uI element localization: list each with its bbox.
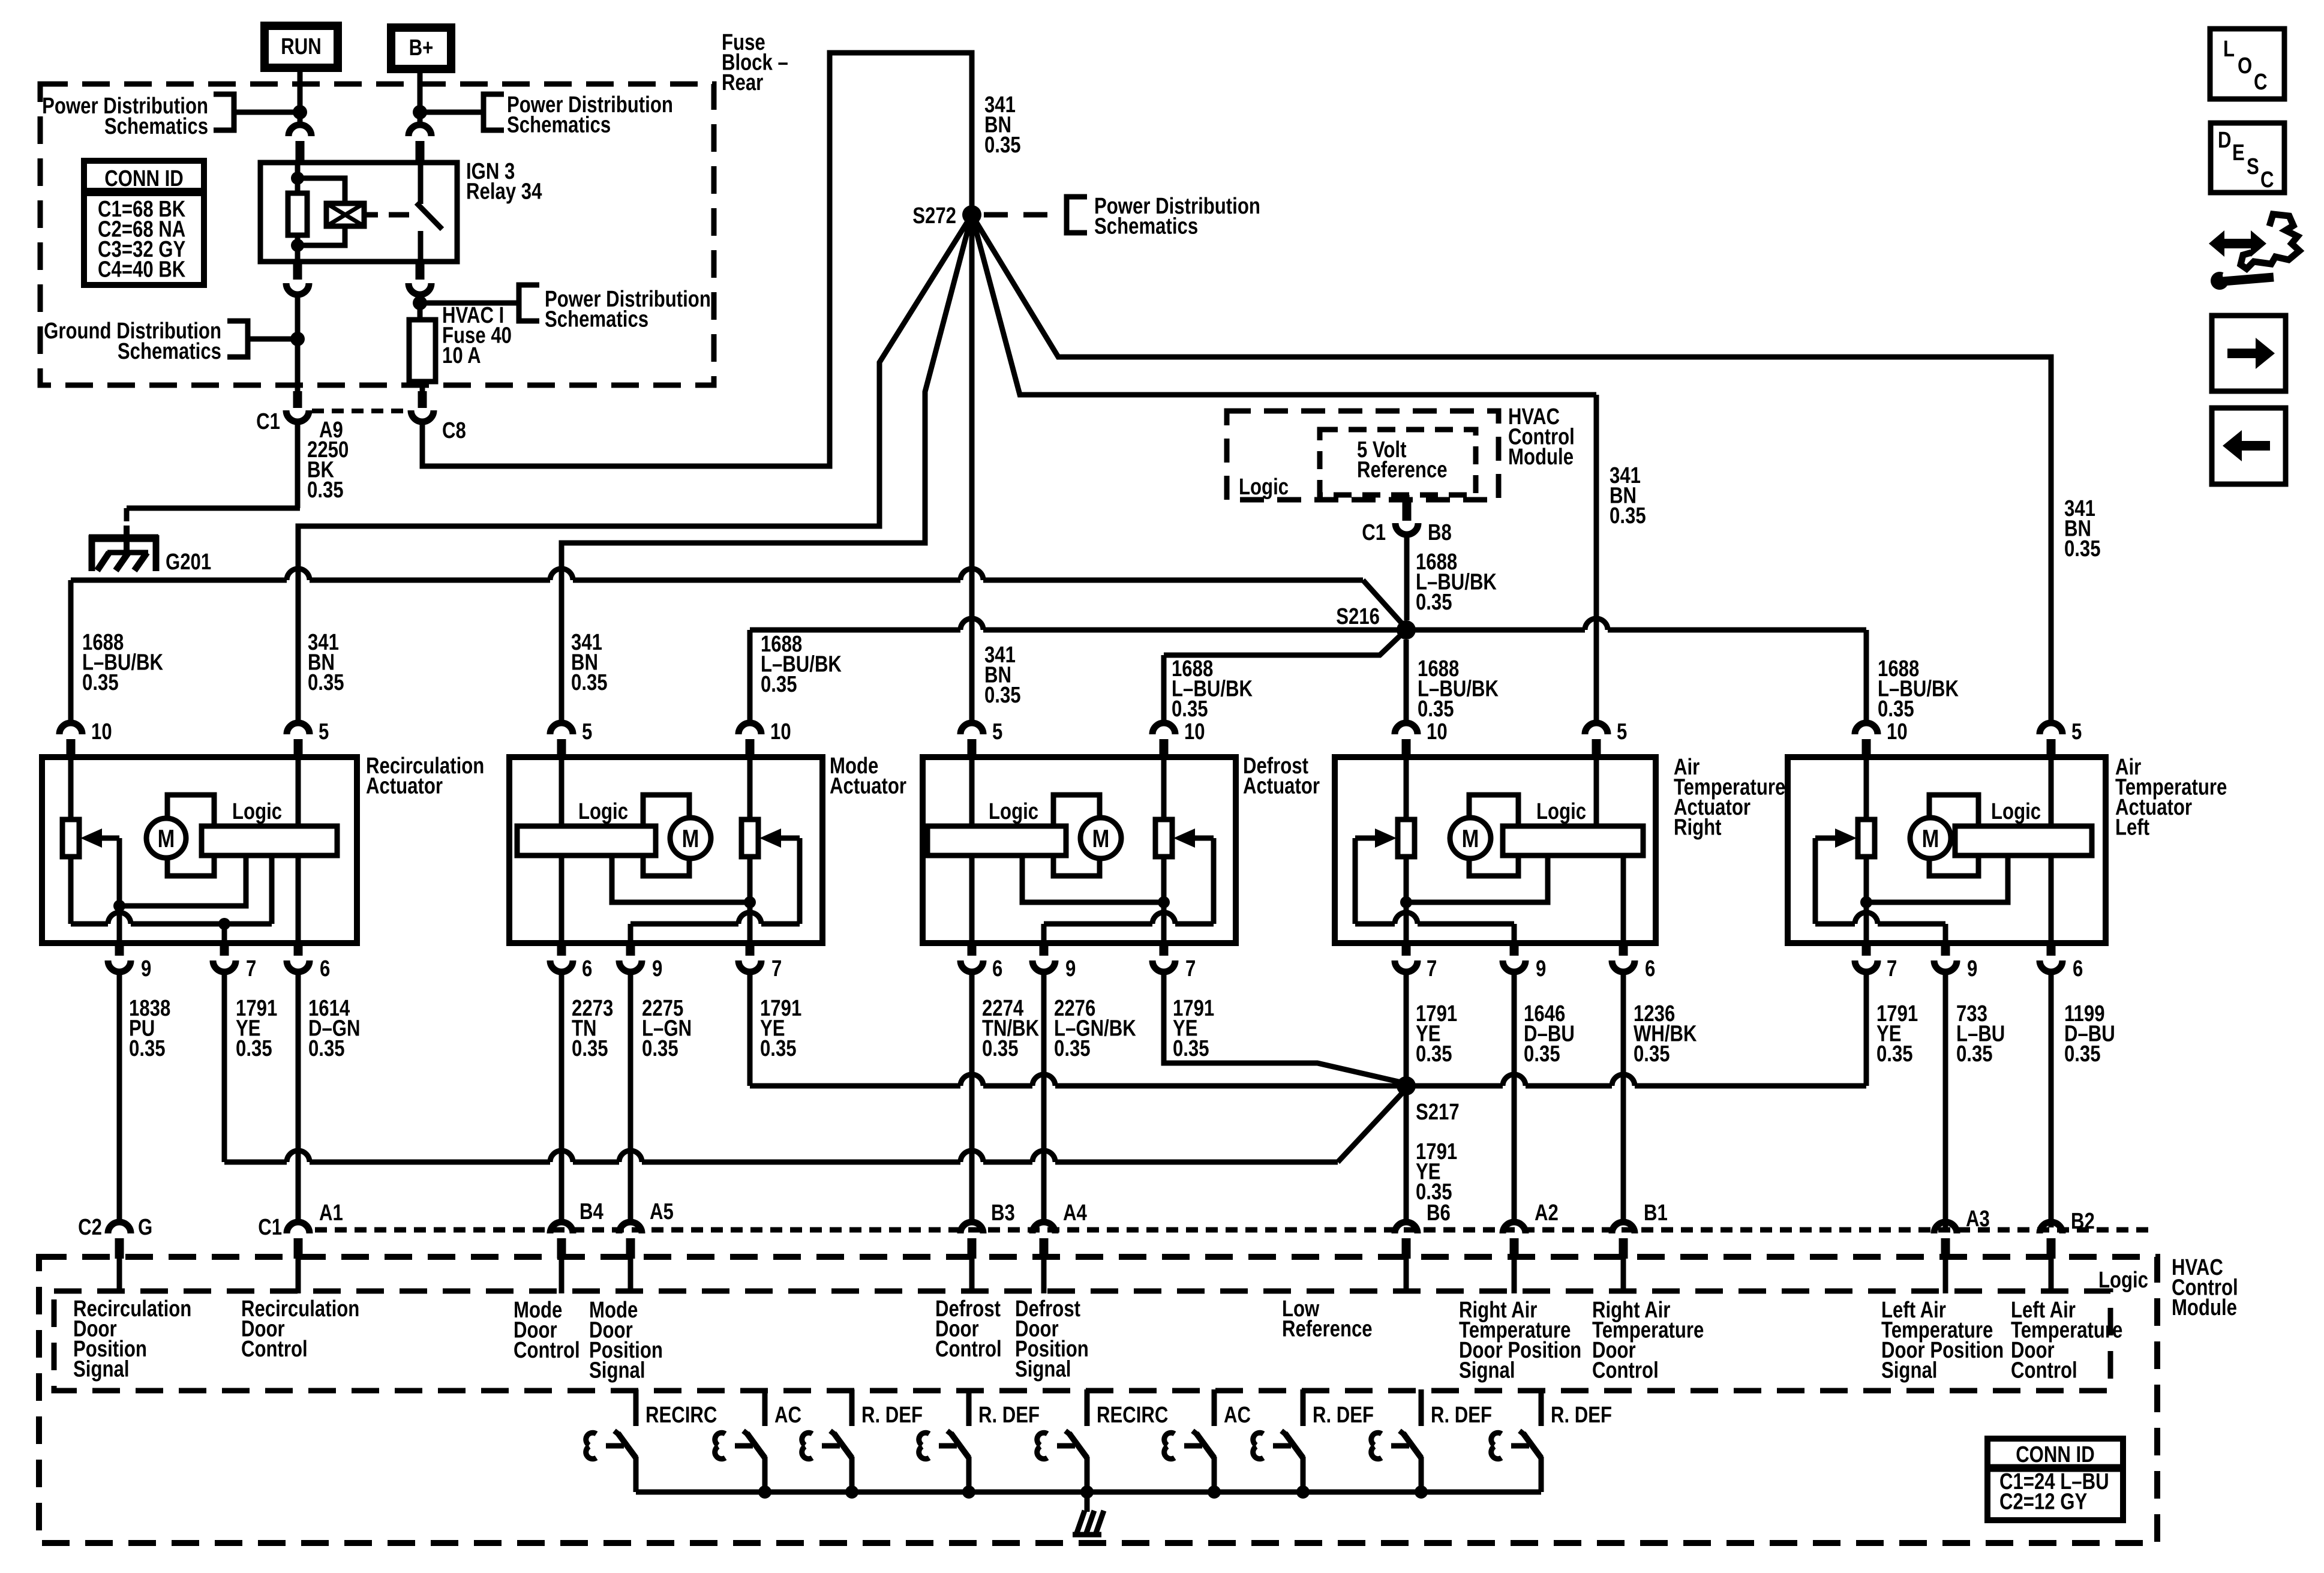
wire pot bottom to pin 7 line xyxy=(68,857,74,924)
HVAC control module right edge wire 341 BN to ATR pin 5 xyxy=(1594,395,1599,721)
motor M xyxy=(146,818,186,858)
svg-text:S217: S217 xyxy=(1416,1100,1460,1125)
wiper arrow xyxy=(1173,828,1195,848)
pin 9 connector xyxy=(1503,960,1526,972)
svg-text:S216: S216 xyxy=(1336,604,1380,629)
wire pot bottom to pin7 xyxy=(747,857,753,943)
pin 6 connector xyxy=(960,960,983,972)
svg-text:Signal: Signal xyxy=(589,1358,645,1383)
svg-text:5: 5 xyxy=(582,719,592,745)
wire pin5 to logic xyxy=(2049,760,2054,826)
connector row pin G xyxy=(108,1222,131,1233)
motor M xyxy=(1080,818,1121,858)
wire pin10 to potentiometer xyxy=(1864,760,1869,819)
wire 1688 bus S216 to recirculation pin 10 xyxy=(71,578,287,583)
svg-text:S272: S272 xyxy=(912,203,956,229)
wire logic to pin 6 xyxy=(296,855,301,943)
switch RECIRC at x=1812 xyxy=(1085,1389,1090,1426)
svg-text:Logic: Logic xyxy=(578,799,628,824)
relay solenoid branch wires xyxy=(298,178,345,203)
pin 5 connector xyxy=(287,723,310,734)
motor M xyxy=(1910,818,1951,858)
switch bus junction xyxy=(1296,1485,1310,1499)
svg-text:Signal: Signal xyxy=(1459,1358,1515,1383)
svg-text:10: 10 xyxy=(1184,719,1205,745)
connector RUN into fuse block xyxy=(289,125,311,136)
relay coil branch junction top xyxy=(291,172,304,185)
fuse block rear dashed box xyxy=(40,84,714,385)
wire ATR pin6 to B1 xyxy=(1621,975,1626,1219)
wire 341 BN S272 to HVAC control module corner xyxy=(972,215,1596,395)
svg-text:M: M xyxy=(1462,825,1479,853)
svg-text:Control: Control xyxy=(935,1337,1002,1362)
logic box xyxy=(1503,826,1643,855)
svg-text:5: 5 xyxy=(319,719,329,745)
wire logic to pin6 xyxy=(559,855,565,943)
CONN ID table bottom right xyxy=(1987,1439,2123,1520)
pin 5 connector xyxy=(2040,723,2062,734)
wire bracket to relay output wire xyxy=(248,337,294,342)
svg-text:Logic: Logic xyxy=(1239,475,1289,500)
svg-text:B6: B6 xyxy=(1427,1200,1451,1226)
svg-text:C2: C2 xyxy=(78,1215,102,1240)
wire mode pin6 to B4 xyxy=(559,975,565,1219)
svg-text:RUN: RUN xyxy=(281,34,321,59)
junction wiper-logic xyxy=(113,900,125,912)
connector B+ into fuse block xyxy=(409,125,431,136)
wire 341 BN S272 to mode pin 5 xyxy=(562,215,972,721)
svg-text:R. DEF: R. DEF xyxy=(861,1403,923,1428)
svg-text:6: 6 xyxy=(992,956,1002,981)
wire pot tap to logic xyxy=(1406,855,1548,902)
wiper arrow xyxy=(1835,828,1857,848)
svg-text:B3: B3 xyxy=(991,1200,1015,1226)
svg-text:B1: B1 xyxy=(1644,1200,1668,1226)
svg-text:D: D xyxy=(2218,128,2232,153)
svg-text:7: 7 xyxy=(771,956,782,981)
svg-text:B+: B+ xyxy=(409,35,434,61)
switch R. DEF at x=2369 xyxy=(1419,1389,1424,1426)
connector face dashed line xyxy=(315,1227,2154,1233)
pin 7 connector xyxy=(1395,960,1418,972)
fuse HVAC I Fuse 40 10A symbol xyxy=(409,320,436,382)
svg-text:Reference: Reference xyxy=(1282,1317,1373,1342)
potentiometer xyxy=(741,819,758,857)
svg-text:Signal: Signal xyxy=(1015,1357,1071,1382)
switch RECIRC at x=1060 xyxy=(633,1389,639,1426)
pin 10 connector xyxy=(59,723,82,734)
svg-text:Reference: Reference xyxy=(1357,458,1448,483)
junction pot-logic tap xyxy=(1158,896,1170,908)
svg-text:Schematics: Schematics xyxy=(118,339,221,364)
wiper wire to pin 9 xyxy=(1353,838,1358,924)
svg-text:Schematics: Schematics xyxy=(545,307,648,332)
switch R. DEF at x=1615 xyxy=(966,1389,972,1426)
svg-text:M: M xyxy=(1092,825,1110,853)
svg-text:R. DEF: R. DEF xyxy=(1551,1403,1612,1428)
svg-text:G: G xyxy=(138,1215,152,1240)
svg-text:R. DEF: R. DEF xyxy=(1431,1403,1492,1428)
svg-text:AC: AC xyxy=(774,1403,801,1428)
connector row pin A5 xyxy=(619,1222,642,1233)
wire 1688 branch S216 to defrost pin 10 xyxy=(1164,630,1406,655)
svg-text:Schematics: Schematics xyxy=(507,113,611,138)
wire 5 volt reference output xyxy=(1404,495,1410,500)
svg-text:Logic: Logic xyxy=(1991,799,2041,824)
svg-text:G201: G201 xyxy=(166,550,211,575)
pin 9 connector xyxy=(619,960,642,972)
svg-text:Schematics: Schematics xyxy=(1094,214,1198,239)
HVAC control module logic dashed box xyxy=(1227,411,1499,500)
junction RUN / power distribution tap xyxy=(293,105,307,119)
svg-text:5: 5 xyxy=(1617,719,1627,745)
motor loop xyxy=(1469,795,1518,876)
pin 6 connector xyxy=(2040,960,2062,972)
switch bus ground stub xyxy=(1085,1492,1090,1512)
svg-text:6: 6 xyxy=(1645,956,1655,981)
svg-text:0.35: 0.35 xyxy=(236,1036,272,1061)
switch common bus xyxy=(636,1490,1541,1495)
ground symbol below switch bus xyxy=(1076,1511,1085,1535)
splice S272 xyxy=(962,205,981,224)
wiper wire to pin 9 xyxy=(117,838,122,943)
wire pot bottom to pin7 xyxy=(1864,857,1869,943)
connector row pin B1 xyxy=(1612,1222,1635,1233)
svg-text:10: 10 xyxy=(91,719,112,745)
svg-text:E: E xyxy=(2232,140,2245,166)
pin 9 connector xyxy=(108,960,131,972)
connector row pin A2 xyxy=(1503,1222,1526,1233)
relay output stub B+ side xyxy=(416,262,425,280)
motor loop xyxy=(1053,795,1100,876)
svg-text:0.35: 0.35 xyxy=(1878,697,1914,722)
svg-text:10: 10 xyxy=(1887,719,1908,745)
svg-text:Control: Control xyxy=(514,1338,580,1363)
svg-text:0.35: 0.35 xyxy=(1172,697,1208,722)
svg-text:9: 9 xyxy=(1065,956,1076,981)
wire pot line to logic xyxy=(71,921,108,927)
pin 7 connector xyxy=(738,960,761,972)
svg-text:Module: Module xyxy=(1508,445,1574,470)
svg-text:C: C xyxy=(2254,70,2268,95)
svg-text:C4=40 BK: C4=40 BK xyxy=(98,257,185,283)
bracket power distribution right xyxy=(484,94,504,130)
svg-text:C1: C1 xyxy=(1362,520,1386,545)
wire C1 ground lead down xyxy=(295,420,301,508)
svg-text:6: 6 xyxy=(320,956,330,981)
connector row pin B4 xyxy=(550,1222,573,1233)
connector C1 cup xyxy=(286,410,309,422)
svg-text:Logic: Logic xyxy=(2098,1268,2148,1293)
wire ATL pin9 to A3 xyxy=(1943,975,1948,1227)
wire pin5 to logic xyxy=(1594,760,1599,826)
connector row pin A4 xyxy=(1032,1222,1055,1233)
RUN feed box xyxy=(265,26,338,68)
svg-text:Logic: Logic xyxy=(232,799,282,824)
svg-text:0.35: 0.35 xyxy=(1416,1041,1452,1067)
svg-text:6: 6 xyxy=(582,956,592,981)
wire pin10 to potentiometer xyxy=(747,760,753,819)
wiper arrow xyxy=(80,828,102,848)
B+ feed box xyxy=(391,28,451,69)
wire pin5 to logic xyxy=(559,760,565,826)
junction ground distribution tap xyxy=(290,332,305,346)
svg-text:B2: B2 xyxy=(2071,1209,2095,1234)
wire recirc pin7 to 1791 bus xyxy=(222,975,227,1162)
svg-text:Actuator: Actuator xyxy=(830,774,906,799)
svg-text:CONN ID: CONN ID xyxy=(2016,1442,2095,1467)
motor loop xyxy=(643,795,689,876)
pin 10 connector xyxy=(1855,723,1878,734)
pin 7 connector xyxy=(1855,960,1878,972)
wire ground lead left to G201 xyxy=(127,506,300,511)
5 volt reference dashed box xyxy=(1320,430,1476,495)
svg-text:Left: Left xyxy=(2115,815,2149,840)
connector C1 stub xyxy=(293,391,302,408)
wire S217 to ATL pin7 xyxy=(1864,975,1869,1086)
wire 341 BN S272 to defrost pin 5 xyxy=(969,215,975,721)
wire 1688 main bus mode pin10 - S216 - ATL pin10 xyxy=(750,628,960,633)
wire pin10 to potentiometer xyxy=(68,760,74,819)
connector C8 cup xyxy=(411,410,434,422)
relay IGN 3 Relay 34 box xyxy=(260,163,457,262)
Air Right actuator box xyxy=(1335,757,1656,943)
switch R. DEF at x=2569 xyxy=(1539,1389,1544,1426)
wire pin10 to potentiometer xyxy=(1161,760,1167,819)
svg-text:10: 10 xyxy=(770,719,791,745)
svg-text:CONN ID: CONN ID xyxy=(104,166,184,191)
connector row pin B3 xyxy=(960,1222,983,1233)
svg-text:M: M xyxy=(682,825,699,853)
relay solenoid X-box xyxy=(326,203,364,226)
relay switch blade xyxy=(416,203,442,229)
svg-text:Control: Control xyxy=(241,1337,308,1362)
svg-text:RECIRC: RECIRC xyxy=(645,1403,717,1428)
svg-text:Relay 34: Relay 34 xyxy=(466,179,542,205)
svg-text:0.35: 0.35 xyxy=(308,670,344,695)
connector row pin A3 xyxy=(1934,1222,1957,1233)
connector relay coil output xyxy=(286,283,309,295)
relay output stub RUN side xyxy=(293,262,302,280)
svg-text:0.35: 0.35 xyxy=(1956,1041,1993,1067)
wire mode pin9 to A5 xyxy=(628,975,633,1219)
motor M xyxy=(1450,818,1491,858)
motor loop xyxy=(167,795,214,876)
pin 6 connector xyxy=(550,960,573,972)
potentiometer xyxy=(1398,819,1415,857)
wire 341 BN S272 to recirculation pin 5 xyxy=(298,215,972,721)
svg-text:A2: A2 xyxy=(1535,1200,1559,1226)
wire ATL pin6 to B2 xyxy=(2049,975,2054,1227)
svg-text:Logic: Logic xyxy=(1536,799,1586,824)
junction pot line pin 7 xyxy=(218,918,230,930)
svg-text:0.35: 0.35 xyxy=(2064,536,2101,562)
wiper arrow xyxy=(1375,828,1397,848)
CONN ID table top left xyxy=(84,161,204,285)
wire pin5 to logic xyxy=(296,760,301,826)
svg-text:0.35: 0.35 xyxy=(572,1036,608,1061)
svg-text:5: 5 xyxy=(992,719,1002,745)
svg-text:Schematics: Schematics xyxy=(104,114,208,139)
svg-text:7: 7 xyxy=(1427,956,1437,981)
icon service tool xyxy=(2209,230,2266,257)
svg-text:0.35: 0.35 xyxy=(760,1036,797,1061)
svg-text:L: L xyxy=(2223,37,2235,62)
connector relay switched output xyxy=(409,283,431,295)
svg-text:Signal: Signal xyxy=(1881,1358,1937,1383)
svg-text:0.35: 0.35 xyxy=(1876,1041,1913,1067)
Recirculation actuator box xyxy=(42,757,357,943)
svg-text:0.35: 0.35 xyxy=(2064,1041,2101,1067)
wire logic to pin6 xyxy=(2049,855,2054,943)
wire 1688 S216 down to ATR pin 10 xyxy=(1404,640,1409,721)
pin 10 connector xyxy=(1395,723,1418,734)
bracket ground distribution xyxy=(227,321,248,357)
Air Left actuator box xyxy=(1788,757,2106,943)
wire logic to pin6 xyxy=(1621,855,1626,943)
logic box xyxy=(1955,826,2092,855)
svg-text:A3: A3 xyxy=(1966,1206,1990,1232)
svg-text:0.35: 0.35 xyxy=(982,1036,1019,1061)
svg-text:0.35: 0.35 xyxy=(1416,590,1452,615)
icon DESC box xyxy=(2211,123,2284,193)
wire ATR pin7 to S217 xyxy=(1404,975,1409,1086)
svg-text:10: 10 xyxy=(1427,719,1448,745)
switch AC at x=1275 xyxy=(762,1389,768,1426)
relay coil resistor xyxy=(295,163,301,193)
svg-text:R. DEF: R. DEF xyxy=(1313,1403,1374,1428)
switch bus junction xyxy=(1080,1485,1094,1499)
svg-text:0.35: 0.35 xyxy=(82,670,119,695)
splice S216 xyxy=(1397,620,1416,640)
potentiometer xyxy=(1858,819,1875,857)
switch bus junction xyxy=(1208,1485,1221,1499)
wire relay coil output down to C1 xyxy=(295,293,301,391)
wire mode pin7 to S217 xyxy=(747,975,753,1086)
motor M xyxy=(670,818,711,858)
wire pin5 to logic xyxy=(969,760,975,826)
splice S217 xyxy=(1397,1076,1416,1095)
Defrost actuator box xyxy=(923,757,1236,943)
connector C1 B8 cup xyxy=(1395,523,1418,535)
wire pot tap to logic xyxy=(1866,855,2008,902)
svg-text:B4: B4 xyxy=(580,1199,603,1224)
svg-text:9: 9 xyxy=(1967,956,1977,981)
svg-text:C1: C1 xyxy=(256,409,280,434)
switch R. DEF at x=2172 xyxy=(1301,1389,1306,1426)
svg-text:Right: Right xyxy=(1674,815,1722,840)
wire pot tap to logic xyxy=(612,855,750,902)
wire pin10 to potentiometer xyxy=(1404,760,1409,819)
wire defrost pin9 to A4 xyxy=(1041,975,1047,1219)
wire B+ wire to bracket xyxy=(424,110,484,115)
bracket power distribution at fuse xyxy=(519,285,539,321)
junction pot-logic tap xyxy=(1860,896,1872,908)
wire relay switched output to fuse xyxy=(418,293,423,320)
wire RUN to relay xyxy=(298,72,303,123)
svg-text:0.35: 0.35 xyxy=(1610,503,1646,529)
switch bus junction xyxy=(1415,1485,1428,1499)
connector row pin B2 xyxy=(2040,1222,2062,1233)
pin 6 connector xyxy=(287,960,310,972)
svg-text:0.35: 0.35 xyxy=(642,1036,678,1061)
svg-text:B8: B8 xyxy=(1428,520,1452,545)
wire recirc pin9 to C2 G xyxy=(117,975,122,1219)
wire pot bottom to pin7 xyxy=(1161,857,1167,943)
logic dashed box bottom xyxy=(54,1291,2110,1391)
switch AC at x=2024 xyxy=(1212,1389,1217,1426)
icon back arrow box xyxy=(2212,408,2286,484)
wire pot bottom to pin7 xyxy=(1404,857,1409,943)
wiper arrow xyxy=(759,828,781,848)
svg-text:0.35: 0.35 xyxy=(129,1036,166,1061)
svg-text:S: S xyxy=(2247,154,2259,179)
relay solenoid stub to dashed link xyxy=(364,212,378,218)
svg-text:5: 5 xyxy=(2071,719,2082,745)
svg-text:0.35: 0.35 xyxy=(984,683,1021,708)
pin 7 connector xyxy=(1152,960,1175,972)
junction fuse / power distribution tap xyxy=(413,296,427,310)
junction pot-logic tap xyxy=(744,896,756,908)
relay coil branch junction bottom xyxy=(291,239,304,252)
svg-text:C1: C1 xyxy=(258,1215,282,1240)
svg-text:A4: A4 xyxy=(1063,1200,1087,1226)
connector C8 stub xyxy=(418,391,427,408)
ground G201 symbol xyxy=(124,526,130,553)
svg-text:M: M xyxy=(158,825,175,853)
svg-text:R. DEF: R. DEF xyxy=(978,1403,1040,1428)
wire 1791 bus recirc to S217 xyxy=(224,1160,287,1165)
bracket power distribution left xyxy=(214,94,234,130)
svg-text:7: 7 xyxy=(1887,956,1897,981)
junction pot-logic tap xyxy=(1400,896,1412,908)
pin 5 connector xyxy=(1585,723,1608,734)
pin 7 connector xyxy=(213,960,236,972)
relay dashed actuation link xyxy=(389,212,409,218)
pin 6 connector xyxy=(1612,960,1635,972)
potentiometer xyxy=(1155,819,1172,857)
svg-text:M: M xyxy=(1922,825,1939,853)
wire ATR pin9 to A2 xyxy=(1512,975,1517,1219)
icon LOC box xyxy=(2210,29,2284,99)
svg-text:Module: Module xyxy=(2172,1295,2237,1320)
wire defrost pin7 to S217 xyxy=(1164,975,1406,1083)
wiper wire to pin 9 xyxy=(797,838,803,924)
relay switch lower contact xyxy=(418,231,424,262)
wire S217 to B6 xyxy=(1404,1086,1409,1219)
switch bus junction xyxy=(758,1485,771,1499)
wiper wire to pin 9 xyxy=(1211,838,1217,924)
pin 5 connector xyxy=(960,723,983,734)
wire bracket to RUN wire xyxy=(234,110,296,115)
Mode actuator box xyxy=(509,757,822,943)
wire fuse to C8 xyxy=(420,382,425,391)
svg-text:RECIRC: RECIRC xyxy=(1097,1403,1168,1428)
switch R. DEF at x=1420 xyxy=(849,1389,855,1426)
wire pot tap to logic xyxy=(1022,855,1164,902)
wire logic to pin6 xyxy=(969,855,975,943)
pin 9 connector xyxy=(1934,960,1957,972)
svg-text:C2=12 GY: C2=12 GY xyxy=(1999,1490,2087,1515)
motor loop xyxy=(1929,795,1978,876)
wire 1688 B8 to S216 xyxy=(1404,533,1410,620)
svg-text:Signal: Signal xyxy=(73,1357,129,1382)
logic box xyxy=(927,826,1066,855)
svg-text:Control: Control xyxy=(2011,1358,2077,1383)
icon next arrow box xyxy=(2212,316,2286,391)
wire junction to bracket xyxy=(424,301,518,306)
switch bus junction xyxy=(845,1485,858,1499)
